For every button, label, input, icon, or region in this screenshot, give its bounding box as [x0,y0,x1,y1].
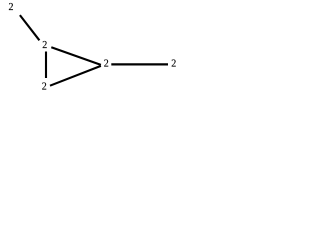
svg-text:2: 2 [104,58,109,69]
svg-text:2: 2 [42,81,47,92]
wire edge D-E [111,63,168,65]
wire edge C-D [50,66,101,86]
wire edge B-D [51,47,101,65]
wire edge A-B [20,15,40,40]
svg-text:2: 2 [9,2,14,13]
wire edge B-C [45,52,47,79]
svg-text:2: 2 [171,58,176,69]
svg-text:2: 2 [42,40,47,51]
